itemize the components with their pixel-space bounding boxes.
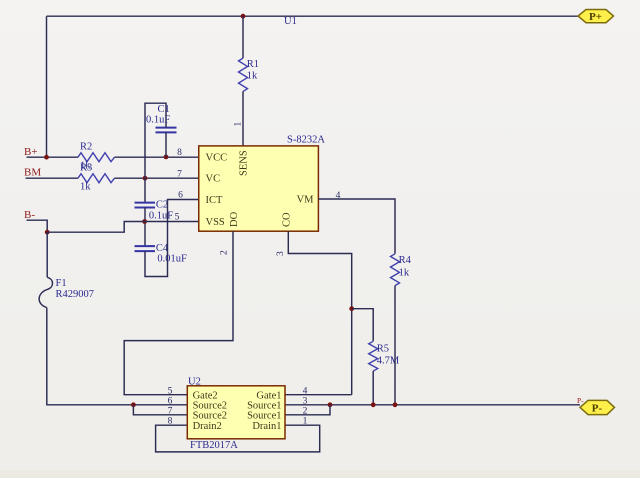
wire C1 top loop to VC vertical — [145, 103, 166, 202]
wire DO to U2 gate2 — [124, 231, 233, 395]
fuse F1 — [39, 277, 52, 307]
svg-text:U1: U1 — [284, 16, 297, 27]
svg-text:FTB2017A: FTB2017A — [190, 440, 238, 451]
svg-text:VCC: VCC — [206, 152, 228, 163]
svg-text:7: 7 — [168, 407, 173, 417]
svg-text:Source2: Source2 — [193, 411, 227, 422]
svg-text:R5: R5 — [377, 344, 389, 355]
svg-text:4: 4 — [303, 387, 308, 397]
resistor R3 — [78, 174, 115, 183]
svg-text:1k: 1k — [247, 71, 258, 82]
svg-text:2: 2 — [220, 250, 230, 255]
junction pin2 riser — [328, 402, 333, 407]
svg-text:VM: VM — [297, 194, 315, 205]
svg-text:Drain1: Drain1 — [252, 421, 281, 432]
wire fuse to bottom bus — [47, 308, 188, 405]
resistor R2 — [78, 153, 115, 162]
svg-text:5: 5 — [175, 213, 180, 223]
port P+ — [578, 10, 614, 24]
svg-text:B-: B- — [24, 209, 35, 221]
wire R3 to VC pin 7 — [115, 177, 199, 179]
junction source2 bus — [131, 402, 136, 407]
wire VM to R4 — [318, 199, 395, 254]
resistor R5 — [369, 341, 378, 371]
svg-text:0.1uF: 0.1uF — [149, 211, 173, 222]
resistor R1 — [239, 58, 248, 91]
svg-text:U2: U2 — [188, 377, 201, 388]
junction C1/C2 vertical on VC row — [143, 176, 148, 181]
svg-text:7: 7 — [177, 169, 182, 179]
svg-text:1k: 1k — [399, 268, 410, 279]
svg-text:0.01uF: 0.01uF — [157, 254, 187, 265]
wire B- down to fuse — [46, 232, 48, 277]
svg-text:B+: B+ — [24, 146, 38, 158]
svg-text:C1: C1 — [158, 104, 170, 115]
svg-text:5: 5 — [168, 387, 173, 397]
svg-text:R1: R1 — [247, 59, 259, 70]
svg-text:CO: CO — [282, 212, 293, 227]
svg-text:S-8232A: S-8232A — [287, 135, 325, 146]
svg-text:R4: R4 — [399, 255, 412, 266]
capacitor C2 — [135, 200, 174, 222]
wire pin7 riser — [133, 405, 187, 415]
junction VSS row — [142, 219, 147, 224]
junction R5 tap — [349, 306, 354, 311]
svg-text:VSS: VSS — [206, 217, 225, 228]
wire R5 top — [352, 309, 374, 342]
svg-text:R3: R3 — [80, 163, 92, 174]
op-amp U1 S-8232A body — [199, 146, 319, 231]
svg-text:3: 3 — [276, 251, 286, 256]
svg-text:1: 1 — [303, 417, 308, 427]
svg-text:6: 6 — [168, 397, 173, 407]
svg-text:8: 8 — [177, 148, 182, 158]
capacitor C4 — [135, 243, 188, 265]
wire source1 bus to P- — [285, 404, 580, 406]
wire pin2 riser — [285, 405, 330, 415]
junction R4 bottom — [393, 402, 398, 407]
capacitor C1 — [146, 104, 177, 132]
junction R5 bottom — [371, 402, 376, 407]
resistor R4 — [391, 254, 400, 286]
svg-text:P+: P+ — [589, 11, 602, 23]
wire B- stub — [27, 220, 48, 232]
wire C4 bottom loop to ICT pin 6 — [145, 200, 199, 277]
svg-text:R2: R2 — [80, 142, 92, 153]
svg-text:C2: C2 — [156, 200, 168, 211]
svg-text:Source1: Source1 — [247, 411, 281, 422]
wire B- to VSS with jog — [47, 222, 199, 233]
wire BM stub — [26, 177, 79, 179]
wire R5 bottom — [372, 371, 374, 405]
transistor U2 FTB2017A body — [187, 386, 285, 439]
svg-text:DO: DO — [229, 211, 240, 227]
svg-text:6: 6 — [178, 191, 183, 201]
svg-text:4.7M: 4.7M — [377, 356, 400, 367]
wire C2 bottom to VSS row and C4 top — [144, 208, 146, 247]
wire gate1 — [285, 394, 352, 396]
svg-text:8: 8 — [168, 417, 173, 427]
svg-text:P-: P- — [592, 402, 603, 414]
svg-text:BM: BM — [24, 167, 41, 179]
wire R2 to VCC pin 8 — [115, 156, 199, 158]
svg-text:ICT: ICT — [206, 195, 224, 206]
junction B- — [45, 230, 50, 235]
svg-text:SENS: SENS — [239, 150, 250, 176]
wire R1 top — [242, 16, 244, 58]
wire left vertical B+ — [46, 16, 48, 157]
svg-text:1k: 1k — [80, 182, 91, 193]
svg-text:P-: P- — [577, 396, 584, 405]
svg-text:1: 1 — [234, 122, 244, 127]
svg-text:2: 2 — [303, 407, 308, 417]
junction top R1 — [241, 14, 246, 19]
wire top rail B+ to P+ — [47, 15, 579, 17]
junction B+ — [44, 155, 49, 160]
wire R1 bottom to SENS pin 1 — [242, 91, 244, 145]
svg-text:F1: F1 — [56, 278, 67, 289]
wire CO to gate1 riser — [288, 231, 351, 395]
wire C1 bottom to VCC row — [165, 132, 167, 157]
svg-text:R429007: R429007 — [56, 289, 95, 300]
wire R4 bottom — [394, 286, 396, 405]
junction C1 bottom on VCC row — [164, 155, 169, 160]
wire drain loop — [156, 425, 320, 452]
svg-text:VC: VC — [206, 174, 221, 185]
svg-text:3: 3 — [303, 397, 308, 407]
svg-text:Drain2: Drain2 — [193, 421, 222, 432]
wire B+ stub — [27, 156, 79, 158]
port P- — [580, 400, 615, 414]
